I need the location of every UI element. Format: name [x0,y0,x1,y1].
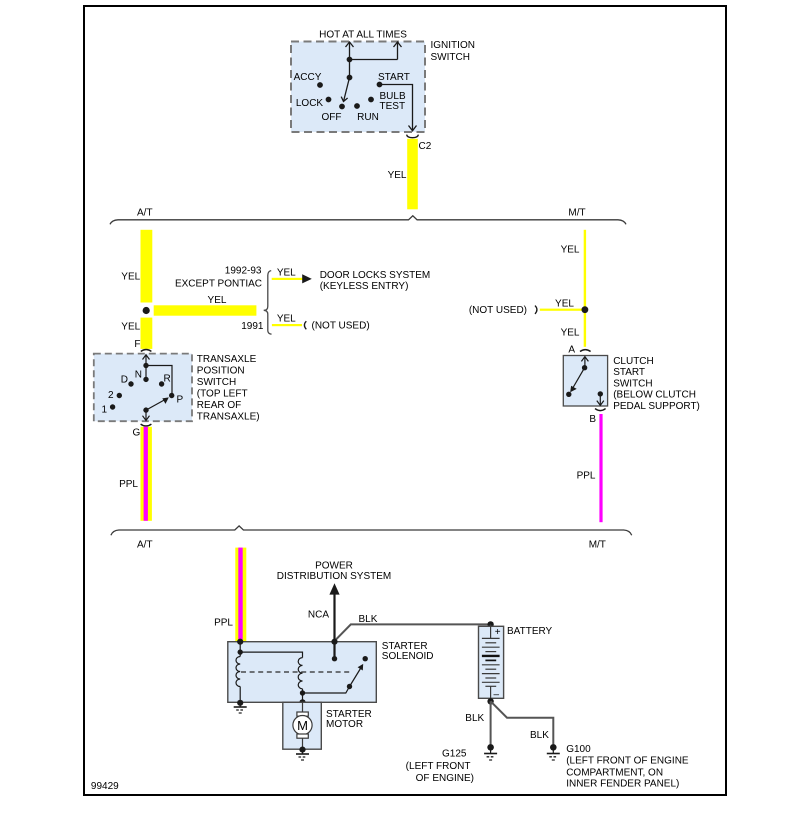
node NCA inside [332,656,337,661]
switch pivot node [582,365,587,370]
svg-text:HOT AT ALL TIMES: HOT AT ALL TIMES [319,30,407,41]
svg-text:YEL: YEL [388,170,407,181]
pull-in coil [236,657,240,687]
node coil top [238,649,243,654]
svg-text:C2: C2 [419,141,432,152]
svg-text:(LEFT FRONT: (LEFT FRONT [406,761,471,772]
svg-text:G125: G125 [442,748,467,759]
svg-text:(NOT USED): (NOT USED) [469,305,527,316]
node NCA at box edge [331,639,337,645]
connector C2 cavity [407,135,419,138]
svg-text:SWITCH: SWITCH [613,378,652,389]
connector B cavity [595,409,606,411]
contact 2 [117,393,122,398]
motor M1 [293,702,312,749]
ground (starter motor) [296,750,309,760]
ground G125 [484,744,497,760]
contact P [169,393,174,398]
battery cells [482,624,500,701]
wire YEL to door locks (thin) [272,278,304,280]
wire PPL to solenoid (yellow edges + magenta core) [235,548,246,642]
node battery positive [487,621,493,627]
svg-text:PPL: PPL [577,471,596,482]
arrow to DOOR LOCKS SYSTEM [302,274,312,283]
contact BULB TEST [368,97,374,103]
starter solenoid box [228,642,376,703]
svg-text:1: 1 [101,404,107,415]
svg-text:COMPARTMENT, ON: COMPARTMENT, ON [566,768,663,779]
svg-text:TRANSAXLE): TRANSAXLE) [197,411,260,422]
svg-text:+: + [495,627,501,638]
svg-text:YEL: YEL [121,322,140,333]
connector cavity (not used) [304,321,306,329]
svg-text:BLK: BLK [530,730,549,741]
wire YEL vertical (thin) [584,230,586,347]
node ground left [237,700,243,706]
contact LOCK [326,97,332,103]
svg-text:IGNITION: IGNITION [431,40,475,51]
connector A cavity [580,350,591,352]
svg-text:DOOR LOCKS SYSTEM: DOOR LOCKS SYSTEM [320,270,431,281]
svg-text:(LEFT FRONT OF ENGINE: (LEFT FRONT OF ENGINE [566,756,689,767]
svg-text:RUN: RUN [357,112,379,123]
pin A arrow into box [581,357,588,368]
node coil bottom [300,690,305,695]
mechanical link (dashed) [241,671,351,673]
wire from START to connector C2 [380,85,417,131]
contact node B [598,391,603,396]
svg-text:(KEYLESS ENTRY): (KEYLESS ENTRY) [320,281,409,292]
svg-text:PPL: PPL [214,618,233,629]
contact RUN [354,103,360,109]
connector G cavity [141,424,152,426]
wire coil top link [240,642,302,658]
svg-text:P: P [177,395,184,406]
switch wiper pivot node [347,75,353,81]
switch contact upper [363,656,368,661]
svg-text:SOLENOID: SOLENOID [382,651,434,662]
svg-text:YEL: YEL [208,295,227,306]
contact OFF [339,104,345,110]
connector F cavity [141,350,152,352]
wire BLK to G100 [491,701,554,744]
svg-text:SWITCH: SWITCH [197,377,236,388]
svg-text:A: A [568,345,575,356]
wiper node bottom [143,407,148,412]
svg-text:YEL: YEL [555,299,574,310]
svg-text:POSITION: POSITION [197,365,245,376]
svg-text:BLK: BLK [465,713,484,724]
svg-text:(BELOW CLUTCH: (BELOW CLUTCH [613,389,696,400]
contact N [143,377,148,382]
svg-text:OF ENGINE): OF ENGINE) [416,773,474,784]
ignition switch box [291,42,425,133]
svg-text:NCA: NCA [308,610,329,621]
svg-text:MOTOR: MOTOR [326,719,363,730]
svg-text:A/T: A/T [137,539,153,550]
wire YEL horizontal (thick) [154,305,257,315]
starter motor box [283,702,322,749]
hold-in coil [298,658,302,689]
contact ACCY [317,82,323,88]
svg-text:M/T: M/T [589,539,606,550]
node upper [143,363,148,368]
svg-text:DISTRIBUTION SYSTEM: DISTRIBUTION SYSTEM [277,571,391,582]
pin F arrow into box [143,355,173,396]
contact START [377,82,383,88]
contact R [159,381,164,386]
svg-text:INNER FENDER PANEL): INNER FENDER PANEL) [566,779,679,790]
node battery negative [487,698,493,704]
svg-text:G: G [133,428,141,439]
wire BLK to G125 [490,701,492,744]
battery box [479,626,504,698]
svg-text:R: R [164,373,171,384]
svg-text:1991: 1991 [241,321,264,332]
option bracket lower [111,526,632,535]
option brace [264,271,272,335]
wire YEL 1991 not used (thin) [272,324,302,326]
svg-text:YEL: YEL [277,268,296,279]
svg-text:M/T: M/T [568,208,585,219]
option bracket upper [110,216,626,225]
svg-text:PEDAL SUPPORT): PEDAL SUPPORT) [613,401,700,412]
svg-text:YEL: YEL [561,328,580,339]
wire YEL from C2 (thick) [407,139,418,210]
svg-text:–: – [494,690,500,701]
pin B arrow out of box [597,394,604,406]
pin G arrow out of box [143,410,150,420]
svg-text:LOCK: LOCK [296,98,324,109]
svg-text:TEST: TEST [380,101,406,112]
svg-text:(TOP LEFT: (TOP LEFT [197,388,248,399]
svg-text:START: START [378,72,410,83]
svg-text:YEL: YEL [277,314,296,325]
svg-text:A/T: A/T [137,208,153,219]
svg-text:B: B [589,414,596,425]
svg-text:OFF: OFF [322,112,342,123]
wire YEL vertical (thick) [141,230,153,303]
node motor ground [299,747,305,753]
svg-text:BLK: BLK [359,614,378,625]
svg-text:CLUTCH: CLUTCH [613,356,654,367]
junction node on feed [347,57,353,63]
svg-text:EXCEPT PONTIAC: EXCEPT PONTIAC [175,279,262,290]
svg-text:YEL: YEL [561,245,580,256]
svg-text:N: N [135,370,142,381]
connector cavity (not used) [535,306,537,314]
svg-text:1992-93: 1992-93 [225,265,262,276]
wire PPL (M/T, thin magenta) [599,414,602,522]
contact 1 [110,404,115,409]
wire BLK solenoid to battery [335,624,491,641]
svg-text:YEL: YEL [121,271,140,282]
svg-text:99429: 99429 [91,781,119,792]
svg-text:F: F [134,339,140,350]
svg-text:BATTERY: BATTERY [507,626,553,637]
clutch start switch box [563,356,607,407]
svg-text:ACCY: ACCY [294,72,322,83]
switch contact lower [347,684,352,689]
wire PPL (A/T, yellow edges + magenta core) [141,427,152,521]
node PPL entry [237,639,243,645]
svg-text:(NOT USED): (NOT USED) [312,321,370,332]
wire: feed arrows to HOT AT ALL TIMES [346,42,402,78]
switch wiper arm toward OFF [341,78,349,102]
junction node [582,306,589,313]
svg-text:2: 2 [108,390,114,401]
wire YEL stub to not used [540,309,585,311]
svg-text:REAR OF: REAR OF [197,400,241,411]
page border frame [84,6,726,795]
svg-text:POWER: POWER [315,560,353,571]
svg-text:SWITCH: SWITCH [431,52,470,63]
wiper arm [573,368,585,389]
svg-text:START: START [613,367,645,378]
ground G100 [547,744,560,760]
transaxle position switch box [94,354,192,422]
svg-text:TRANSAXLE: TRANSAXLE [197,354,257,365]
ground (solenoid) [234,703,247,713]
wiper arm toward P [146,400,165,410]
contact D [128,381,133,386]
svg-text:D: D [121,374,128,385]
node to starter motor [299,699,305,705]
svg-text:PPL: PPL [119,479,138,490]
svg-text:G100: G100 [566,744,591,755]
solenoid switch arm [350,668,361,687]
svg-text:M: M [297,718,308,733]
junction node [143,307,150,314]
contact node lower-left [566,392,571,397]
wire NCA to power distribution (arrow up) [329,583,339,594]
